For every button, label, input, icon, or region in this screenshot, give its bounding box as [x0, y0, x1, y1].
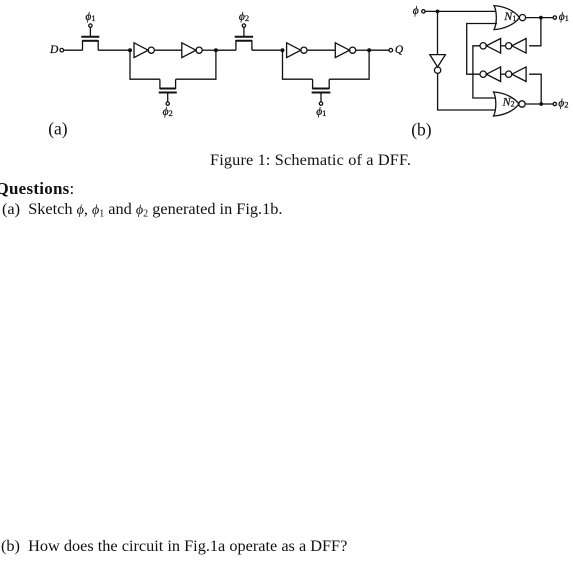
wire phi node down to I5 — [437, 11, 439, 54]
inverter I9 (left) — [480, 67, 501, 82]
inverter I6 (left) — [506, 39, 527, 54]
svg-text:(a): (a) — [48, 119, 68, 139]
wire phi to N1 input 1 — [425, 10, 497, 12]
terminal Q — [389, 48, 393, 52]
svg-text:Q: Q — [395, 44, 404, 56]
wire T1 to node A — [98, 49, 130, 51]
wire I1 to I2 — [154, 49, 181, 51]
transistor T2 pass (phi2) — [235, 24, 253, 50]
wire N1 to phi1 terminal — [526, 17, 553, 19]
inverter I7 (left) — [480, 39, 501, 54]
wire phi2 node up to I8 — [529, 74, 541, 104]
junction phi2 node — [539, 102, 543, 106]
wire I7 to N2 input 1 — [473, 46, 497, 98]
transistor T4 feedback (phi1) — [312, 79, 331, 105]
inverter I3 — [287, 43, 307, 58]
terminal D — [60, 48, 64, 52]
svg-text:ϕ1: ϕ1 — [85, 11, 95, 23]
terminal phi2 — [553, 102, 556, 105]
junction phi1 node — [539, 16, 543, 20]
wire node E to Q — [369, 49, 389, 51]
svg-text:ϕ1: ϕ1 — [559, 11, 569, 23]
wire I9 to N1 input 2 — [467, 24, 497, 75]
wire D to T1 — [64, 49, 83, 51]
svg-text:ϕ2: ϕ2 — [163, 106, 173, 118]
inverter I2 — [182, 43, 202, 58]
inverter I1 — [134, 43, 154, 58]
wire I4 to node E — [356, 49, 369, 51]
junction phi node — [436, 10, 440, 14]
inverter I8 (left) — [506, 67, 527, 82]
node C junction — [281, 48, 285, 52]
wire I2 to node B — [202, 49, 216, 51]
wire phi1 node down to I6 — [529, 18, 541, 46]
node E junction — [367, 48, 371, 52]
svg-text:ϕ: ϕ — [413, 5, 419, 17]
questions heading — [0, 179, 75, 199]
svg-text:(b): (b) — [411, 119, 432, 139]
figure caption — [210, 150, 411, 170]
feedback wire stage 2 right — [329, 50, 369, 79]
question (b) — [1, 536, 347, 556]
terminal phi — [422, 10, 425, 13]
feedback wire stage 2 — [283, 50, 313, 79]
question (a) — [2, 199, 282, 219]
wire N2 to phi2 terminal — [525, 103, 553, 105]
node B junction — [214, 48, 218, 52]
NOR gate N2 — [494, 92, 526, 116]
svg-text:ϕ2: ϕ2 — [239, 11, 249, 23]
svg-text:D: D — [49, 44, 59, 56]
transistor T1 pass (phi1) — [81, 24, 99, 50]
wire I5 to N2 input 2 — [438, 73, 497, 110]
node A junction — [128, 48, 132, 52]
svg-text:N2: N2 — [502, 95, 515, 109]
inverter I5 (down) — [430, 55, 446, 74]
wire I3 to I4 — [307, 49, 335, 51]
svg-text:ϕ1: ϕ1 — [316, 106, 326, 118]
wire T2 to node C — [252, 49, 283, 51]
feedback wire stage 1 right — [176, 50, 216, 79]
feedback wire stage 1 — [130, 50, 160, 79]
svg-text:N1: N1 — [503, 9, 516, 23]
wire node B to T2 — [216, 49, 236, 51]
transistor T3 feedback (phi2) — [159, 79, 177, 105]
circuit figure — [0, 0, 573, 150]
svg-text:ϕ2: ϕ2 — [558, 97, 568, 109]
inverter I4 — [335, 43, 355, 58]
wire I8 to I9 — [501, 73, 506, 75]
terminal phi1 — [553, 16, 556, 19]
wire I6 to I7 — [501, 45, 506, 47]
NOR gate N1 — [494, 6, 526, 30]
